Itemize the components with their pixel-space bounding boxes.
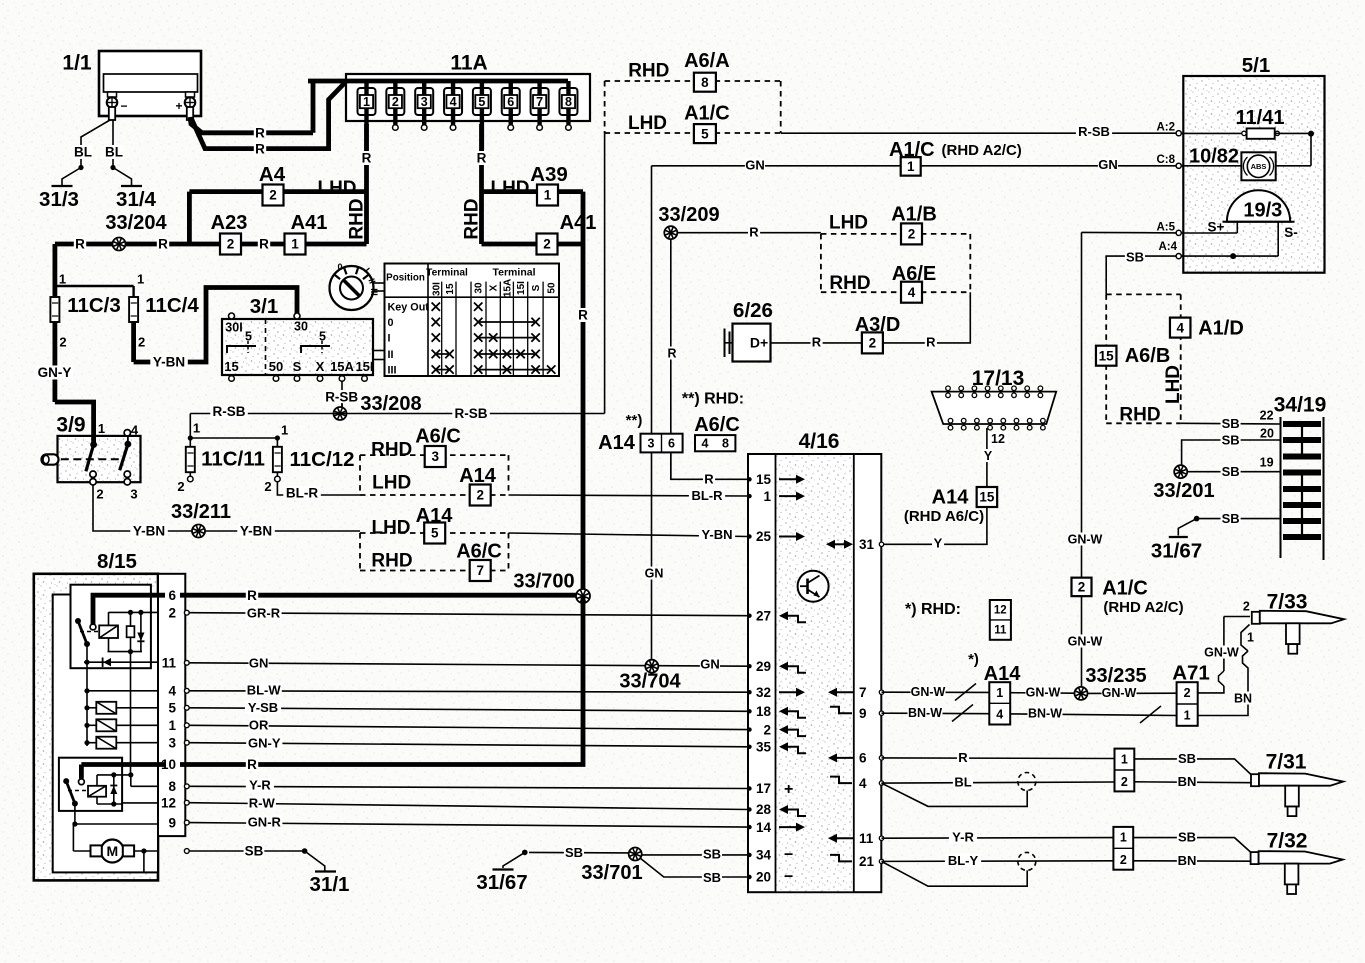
svg-text:Y-BN: Y-BN xyxy=(701,527,732,542)
svg-text:15I: 15I xyxy=(516,281,527,295)
svg-text:GN: GN xyxy=(745,158,765,173)
wire Y from 17/13 pin 12 xyxy=(982,428,1008,487)
svg-text:A6/C: A6/C xyxy=(694,414,740,436)
svg-text:X: X xyxy=(316,359,325,374)
svg-text:9: 9 xyxy=(859,706,867,721)
wire Y-R pin8-17 xyxy=(189,786,748,788)
svg-text:31/4: 31/4 xyxy=(116,188,156,211)
svg-text:33/208: 33/208 xyxy=(360,393,421,415)
svg-text:27: 27 xyxy=(756,608,771,623)
svg-text:Key Out: Key Out xyxy=(388,302,430,314)
wire R to A1/B dashed xyxy=(677,232,821,234)
svg-text:8: 8 xyxy=(565,95,572,109)
svg-text:5: 5 xyxy=(168,701,176,716)
svg-text:R: R xyxy=(75,237,85,252)
svg-text:4: 4 xyxy=(1176,320,1184,335)
wire S+ A:5 to GN-W riser xyxy=(1082,231,1177,234)
svg-text:GN-W: GN-W xyxy=(1102,686,1137,700)
svg-text:ABS: ABS xyxy=(1251,162,1267,171)
svg-text:GN-W: GN-W xyxy=(1204,645,1239,659)
svg-text:R-W: R-W xyxy=(249,796,276,811)
svg-text:8: 8 xyxy=(168,779,176,794)
fuse 7 of 11A xyxy=(531,81,549,130)
svg-text:M: M xyxy=(106,843,118,859)
svg-text:8/15: 8/15 xyxy=(97,550,137,573)
ground 31/67 right xyxy=(1151,511,1281,563)
wire BL-Y pin21 to 7/32 xyxy=(882,860,1114,863)
svg-text:GN-Y: GN-Y xyxy=(248,736,281,751)
svg-text:GR-R: GR-R xyxy=(247,606,281,621)
svg-text:2: 2 xyxy=(96,487,103,502)
svg-text:15I: 15I xyxy=(355,359,373,374)
battery positive wire R upper xyxy=(190,117,313,133)
svg-text:14: 14 xyxy=(756,820,772,835)
svg-text:21: 21 xyxy=(859,854,875,869)
svg-text:30I: 30I xyxy=(225,320,242,334)
wire BN to sensor 7/31 xyxy=(1134,781,1251,784)
fuse 8 of 11A xyxy=(559,81,577,130)
svg-text:11/41: 11/41 xyxy=(1236,107,1285,129)
connector A14 pin 5 xyxy=(424,523,445,544)
wire bus 33/204 row xyxy=(55,242,367,247)
wire R from D+ xyxy=(771,342,863,344)
connector A6/C pin 7 xyxy=(470,560,491,581)
battery negative terminal xyxy=(107,92,128,120)
8/15 upper relay resistor xyxy=(127,612,135,651)
svg-text:11: 11 xyxy=(994,625,1007,637)
svg-text:1/1: 1/1 xyxy=(62,51,92,74)
svg-text:Y-SB: Y-SB xyxy=(248,700,278,715)
svg-text:R: R xyxy=(259,237,269,252)
connector A14 pin 2 xyxy=(470,485,491,506)
ignition position table xyxy=(385,264,560,377)
svg-text:BL-R: BL-R xyxy=(691,488,723,503)
dashed box RHD A6/C 3 / LHD A14 2 xyxy=(360,455,509,495)
svg-text:SB: SB xyxy=(703,870,721,885)
svg-text:Y-BN: Y-BN xyxy=(240,524,272,539)
dashed box A1/B-A6/E xyxy=(821,234,970,292)
svg-text:15: 15 xyxy=(224,359,238,374)
svg-text:30: 30 xyxy=(294,319,308,333)
connector A3/D pin 2 xyxy=(862,332,883,353)
svg-text:2: 2 xyxy=(264,479,271,494)
3/1 bottom terminals xyxy=(224,359,373,381)
svg-text:SB: SB xyxy=(1178,830,1196,845)
svg-text:Y-R: Y-R xyxy=(952,830,974,845)
svg-text:*): *) xyxy=(968,651,979,668)
wire R-SB bus xyxy=(190,413,604,415)
wire R from fuse 5 xyxy=(479,124,484,244)
3/9 pole 1 xyxy=(86,421,105,502)
connector A41 pin 1 xyxy=(285,234,306,255)
connector A1/C pin 2 (GN-W) xyxy=(1072,578,1092,597)
svg-text:RHD: RHD xyxy=(829,273,870,294)
svg-text:R: R xyxy=(247,757,257,772)
wire SB-20 xyxy=(1182,440,1281,465)
3/9 dashed axis xyxy=(61,458,122,460)
svg-text:A41: A41 xyxy=(291,212,328,234)
svg-text:A1/C: A1/C xyxy=(684,103,730,125)
svg-text:4: 4 xyxy=(450,95,457,109)
svg-text:11: 11 xyxy=(859,831,874,846)
svg-text:31/67: 31/67 xyxy=(1151,540,1202,563)
svg-text:25: 25 xyxy=(756,529,772,544)
wire GN-W riser A1/C-2 xyxy=(1068,232,1103,577)
svg-text:19/3: 19/3 xyxy=(1243,200,1282,222)
wire SB-19 xyxy=(1187,471,1281,473)
svg-text:2: 2 xyxy=(138,335,145,350)
svg-text:Y: Y xyxy=(984,449,993,463)
connector A39 pin 1 xyxy=(537,185,558,206)
svg-text:20: 20 xyxy=(1260,427,1274,441)
svg-text:2: 2 xyxy=(269,188,277,203)
wire LHD from fuse1 via A4 xyxy=(189,189,366,194)
svg-text:2: 2 xyxy=(177,479,184,494)
svg-text:(RHD A2/C): (RHD A2/C) xyxy=(942,142,1022,159)
svg-text:SB: SB xyxy=(1222,416,1240,431)
8/15 lower relay feed xyxy=(79,765,84,779)
8/15 lower relay box xyxy=(59,758,122,811)
svg-text:1: 1 xyxy=(1247,630,1254,644)
wire BN-W pin9 to A14 xyxy=(882,705,990,722)
fuse 6 of 11A xyxy=(502,81,520,130)
8/15 upper relay contact xyxy=(75,618,98,647)
svg-text:2: 2 xyxy=(869,336,877,351)
svg-text:33/211: 33/211 xyxy=(171,501,231,523)
svg-text:15: 15 xyxy=(445,283,456,295)
8/15 lower relay wiring xyxy=(97,772,158,806)
wire Y-SB pin5-18 xyxy=(189,708,748,712)
wire R trunk down to 33/700 xyxy=(581,192,586,596)
ignition switch 3/1 body xyxy=(222,319,373,375)
connector A14 [3 6] xyxy=(641,434,683,453)
8/15 upper relay coil xyxy=(99,612,118,651)
ECU 4/16 left pins xyxy=(747,472,771,885)
wire BL to 31/4 xyxy=(112,120,114,168)
wheel sensor 7/31 xyxy=(1251,773,1343,816)
wire Y-BN to 3/1 xyxy=(134,288,297,363)
connector 7/32 [1 2] xyxy=(1113,827,1133,870)
connector 7/31 [1 2] xyxy=(1115,749,1135,792)
wire Y-BN from 3/9 pin2 xyxy=(93,485,360,531)
svg-text:BN: BN xyxy=(1178,853,1197,868)
wire Y-BN to 4/16 pin25 xyxy=(359,531,361,533)
svg-text:7: 7 xyxy=(536,95,543,109)
svg-text:18: 18 xyxy=(756,704,772,719)
svg-text:R: R xyxy=(958,750,968,765)
svg-text:4/16: 4/16 xyxy=(799,430,840,453)
fuse 1 of 11A xyxy=(358,81,376,150)
svg-text:Y-BN: Y-BN xyxy=(153,355,185,370)
wire R-SB riser to LHD/RHD box xyxy=(604,133,606,414)
wire GN-Y to 3/9 xyxy=(55,402,94,436)
svg-text:2: 2 xyxy=(59,335,66,350)
svg-text:(RHD A2/C): (RHD A2/C) xyxy=(1103,599,1183,616)
svg-text:15A: 15A xyxy=(330,359,354,374)
svg-text:8: 8 xyxy=(701,75,709,90)
svg-text:7/33: 7/33 xyxy=(1267,590,1308,613)
wire SB diagonal to pin 20 xyxy=(640,858,748,877)
3/1 terminal 30I xyxy=(229,313,235,319)
svg-text:LHD: LHD xyxy=(317,178,356,199)
svg-text:R-SB: R-SB xyxy=(213,404,246,419)
svg-text:R: R xyxy=(158,237,168,252)
svg-text:31: 31 xyxy=(859,537,875,552)
connector A6/C [4 8] xyxy=(695,435,735,451)
svg-text:A41: A41 xyxy=(560,212,597,234)
dashed box LHD A14 5 / RHD A6/C 7 xyxy=(360,533,509,571)
svg-text:R: R xyxy=(362,151,372,166)
wire SB to ground 31/1 xyxy=(189,850,305,852)
svg-text:SB: SB xyxy=(245,844,264,859)
wire LHD from fuse5 via A39 xyxy=(482,189,584,194)
8/15 lower relay diode xyxy=(110,775,117,804)
svg-text:9: 9 xyxy=(168,815,176,830)
svg-text:5: 5 xyxy=(478,95,485,109)
svg-text:(RHD A6/C): (RHD A6/C) xyxy=(904,508,984,525)
svg-text:10: 10 xyxy=(161,757,176,772)
svg-text:17/13: 17/13 xyxy=(972,367,1025,390)
svg-text:4: 4 xyxy=(908,285,916,300)
svg-text:1: 1 xyxy=(763,489,771,504)
svg-text:R: R xyxy=(255,126,265,141)
svg-text:R: R xyxy=(578,308,588,323)
svg-text:6/26: 6/26 xyxy=(733,299,773,322)
svg-text:LHD: LHD xyxy=(1163,365,1184,404)
svg-text:6: 6 xyxy=(859,751,867,766)
wire GN-W splice to A71 xyxy=(1088,692,1177,694)
svg-text:SB: SB xyxy=(703,847,721,862)
svg-text:BN-W: BN-W xyxy=(908,706,942,720)
svg-text:5/1: 5/1 xyxy=(1242,54,1271,77)
svg-text:R-SB: R-SB xyxy=(455,406,488,421)
svg-text:1: 1 xyxy=(168,718,176,733)
svg-text:RHD: RHD xyxy=(462,198,483,239)
wire SB to sensor 7/31 xyxy=(1134,759,1251,775)
svg-text:3: 3 xyxy=(130,487,137,502)
ECU 4/16 right pins xyxy=(859,537,884,869)
wire SB from 31/67 mid xyxy=(529,851,629,854)
wire to fuses 11C/3 11C/4 xyxy=(55,285,134,287)
8/15 diode to pin 11 xyxy=(84,644,158,746)
svg-text:**): **) xyxy=(626,412,643,429)
wire pin 4 internal xyxy=(87,690,158,692)
ECU 4/16 right arrows xyxy=(826,540,853,862)
wire SB to pin 34 xyxy=(640,854,748,856)
svg-text:15: 15 xyxy=(756,472,772,487)
connector A6/E pin 4 xyxy=(901,282,922,303)
8/15 motor output terminal xyxy=(184,849,189,854)
3/9 actuator xyxy=(42,454,59,464)
module 5/1 body xyxy=(1183,76,1324,273)
svg-text:34: 34 xyxy=(756,848,772,863)
svg-text:BL-R: BL-R xyxy=(286,486,318,501)
svg-text:2: 2 xyxy=(1184,686,1191,700)
svg-text:A:4: A:4 xyxy=(1158,241,1177,253)
svg-text:+: + xyxy=(175,99,182,113)
svg-text:*) RHD:: *) RHD: xyxy=(905,601,961,618)
fuse 3 of 11A xyxy=(415,81,433,130)
svg-text:1: 1 xyxy=(1184,709,1191,723)
3/1 switch element right xyxy=(301,329,330,353)
svg-text:A1/D: A1/D xyxy=(1198,318,1244,340)
svg-text:33/204: 33/204 xyxy=(105,212,167,234)
svg-text:RHD: RHD xyxy=(371,551,412,572)
connector A1/B pin 2 xyxy=(901,223,922,244)
svg-text:RHD: RHD xyxy=(371,439,412,460)
ground 31/1 xyxy=(315,870,336,872)
svg-text:GN-W: GN-W xyxy=(1068,634,1103,648)
terminal block 34/19 bars xyxy=(1283,424,1321,537)
ground 31/3 xyxy=(52,185,73,187)
resistor 11/41 xyxy=(1181,128,1314,165)
3/1 to table stubs xyxy=(373,350,385,352)
wire BL-R xyxy=(277,482,360,495)
svg-text:R: R xyxy=(255,141,265,156)
svg-text:Terminal: Terminal xyxy=(493,267,536,279)
svg-text:BL-Y: BL-Y xyxy=(948,853,979,868)
wire R pin6 to 7/31 xyxy=(882,757,1115,760)
fuse 11C/11 xyxy=(177,421,200,495)
ECU 4/16 body xyxy=(748,454,881,892)
svg-text:11C/11: 11C/11 xyxy=(201,448,265,471)
svg-text:3: 3 xyxy=(648,436,655,450)
svg-text:2: 2 xyxy=(1243,599,1250,613)
svg-text:11C/4: 11C/4 xyxy=(145,294,199,317)
svg-text:2: 2 xyxy=(1120,853,1127,867)
svg-text:A1/B: A1/B xyxy=(891,204,937,226)
svg-text:1: 1 xyxy=(544,188,552,203)
svg-text:1: 1 xyxy=(907,159,915,174)
svg-text:SB: SB xyxy=(1222,433,1240,448)
svg-text:12: 12 xyxy=(161,795,176,810)
8/15 wire to pin 9 xyxy=(72,804,158,852)
svg-text:50: 50 xyxy=(269,359,283,374)
svg-text:III: III xyxy=(369,288,379,296)
svg-text:0: 0 xyxy=(388,317,394,329)
svg-text:Y-BN: Y-BN xyxy=(133,524,165,539)
alternator 6/26 xyxy=(725,324,771,362)
svg-text:+: + xyxy=(784,781,793,798)
svg-text:7/32: 7/32 xyxy=(1267,829,1308,852)
battery positive terminal xyxy=(175,92,195,120)
wire SB from A:4 xyxy=(1106,256,1176,294)
svg-text:33/700: 33/700 xyxy=(513,571,574,593)
svg-text:C:8: C:8 xyxy=(1156,154,1175,166)
svg-text:A6/C: A6/C xyxy=(415,426,461,448)
svg-text:6: 6 xyxy=(168,588,176,603)
wire BN to sensor 7/32 xyxy=(1133,860,1251,862)
wire GN-Y pin3-35 xyxy=(189,743,748,747)
svg-text:R: R xyxy=(749,225,759,240)
svg-text:A14: A14 xyxy=(598,432,636,454)
svg-text:R: R xyxy=(704,472,714,487)
wire R-SB to 5/1 A:2 xyxy=(781,132,1176,134)
svg-text:30: 30 xyxy=(474,282,485,294)
wire R thick pin6 feed xyxy=(93,595,583,624)
svg-text:31/3: 31/3 xyxy=(39,188,79,211)
connector A1/D pin 4 xyxy=(1170,318,1191,338)
wire GN horizontal top xyxy=(652,165,901,167)
svg-text:3: 3 xyxy=(421,95,428,109)
dashed box A6/B-A1/D xyxy=(1106,294,1181,423)
svg-text:GN: GN xyxy=(700,657,720,672)
fuse box bus bar xyxy=(308,79,568,84)
svg-text:2: 2 xyxy=(908,227,916,242)
svg-text:III: III xyxy=(388,364,397,376)
svg-text:X: X xyxy=(489,284,500,291)
ignition key symbol xyxy=(330,262,385,310)
wire BL-W pin4-32 xyxy=(189,691,748,692)
svg-text:D+: D+ xyxy=(750,334,768,350)
wheel sensor 7/33 xyxy=(1252,611,1344,654)
svg-text:R: R xyxy=(477,151,487,166)
svg-text:GN-W: GN-W xyxy=(911,685,946,699)
8/15 wiper motor xyxy=(73,840,158,872)
svg-text:A6/A: A6/A xyxy=(684,50,730,72)
svg-text:OR: OR xyxy=(249,718,269,733)
svg-text:GN: GN xyxy=(249,656,269,671)
wire R from fuse 1 xyxy=(364,124,369,244)
wire OR pin1-2 xyxy=(189,725,748,729)
svg-text:LHD: LHD xyxy=(372,473,411,494)
terminal block 34/19 rails xyxy=(1280,417,1282,558)
8/15 resistor block xyxy=(84,702,158,749)
svg-text:4: 4 xyxy=(996,707,1003,721)
wire GN-W pin7 to A14 xyxy=(882,684,990,701)
svg-text:6: 6 xyxy=(507,95,514,109)
buzzer legs xyxy=(1181,222,1278,256)
wire GN-W A14 to splice xyxy=(1010,692,1074,695)
svg-text:A:2: A:2 xyxy=(1156,122,1175,134)
svg-text:1: 1 xyxy=(281,423,288,438)
ECU 4/16 transistor xyxy=(798,571,829,602)
svg-text:S: S xyxy=(293,359,302,374)
svg-text:1: 1 xyxy=(996,686,1003,700)
fuse 11C/3 xyxy=(50,272,66,402)
connector A41b pin 2 xyxy=(537,234,558,255)
fuse 11C/4 xyxy=(129,272,145,362)
svg-text:33/704: 33/704 xyxy=(619,671,681,693)
note *) RHD: 12 11 xyxy=(905,600,1011,640)
connector A6/C pin 3 xyxy=(425,446,446,467)
svg-text:33/701: 33/701 xyxy=(581,862,642,884)
svg-text:11A: 11A xyxy=(450,51,487,74)
fuse 11C/12 xyxy=(264,423,288,495)
svg-text:S-: S- xyxy=(1284,225,1298,240)
wire A:4 inside xyxy=(1181,255,1278,257)
svg-text:8: 8 xyxy=(722,436,729,450)
svg-text:A39: A39 xyxy=(530,163,568,186)
svg-text:R-SB: R-SB xyxy=(325,390,358,405)
svg-text:33/235: 33/235 xyxy=(1085,665,1146,687)
svg-text:Y-R: Y-R xyxy=(249,778,271,793)
svg-text:29: 29 xyxy=(756,659,771,674)
svg-text:2: 2 xyxy=(168,605,176,620)
svg-text:LHD: LHD xyxy=(829,213,868,234)
svg-text:35: 35 xyxy=(756,740,772,755)
svg-text:GN-W: GN-W xyxy=(1026,686,1061,700)
ECU 4/16 left arrows xyxy=(779,475,806,886)
svg-text:2: 2 xyxy=(1078,580,1086,595)
fuse box 11A body xyxy=(346,74,590,121)
svg-text:LHD: LHD xyxy=(490,178,529,199)
svg-text:2: 2 xyxy=(476,488,484,503)
svg-text:5: 5 xyxy=(431,526,439,541)
svg-text:12: 12 xyxy=(991,432,1005,446)
wire Y to 4/16 pin31 xyxy=(881,507,987,544)
svg-text:2: 2 xyxy=(763,722,771,737)
